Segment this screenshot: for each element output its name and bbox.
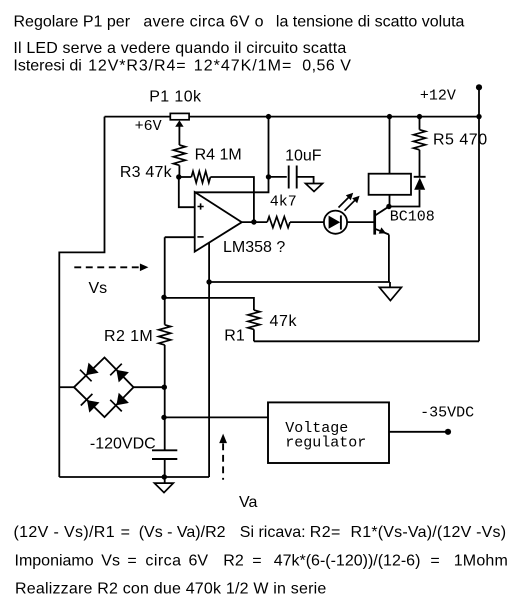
resistor R2 1M — [159, 325, 171, 345]
wire 4k7 to LED — [290, 221, 324, 223]
wire ground bottom rail — [59, 476, 209, 478]
node V+ junction — [266, 174, 271, 179]
wire LED to base — [347, 221, 375, 223]
svg-text:avere circa 6V o: avere circa 6V o — [143, 14, 263, 31]
ground cap — [306, 184, 323, 192]
capacitor C1 10uF — [289, 166, 297, 189]
node bridge junction — [162, 385, 167, 390]
svg-text:Realizzare R2 con due 470k 1/2: Realizzare R2 con due 470k 1/2 W in seri… — [15, 581, 326, 598]
LED arrow 2 — [345, 200, 356, 211]
wire diode to collector — [389, 190, 420, 207]
potentiometer P1 wiper arrow — [175, 120, 183, 127]
svg-text:la tensione di scatto voluta: la tensione di scatto voluta — [276, 14, 465, 31]
wire R3 to feedback corner — [210, 177, 254, 222]
wire left frame — [59, 117, 104, 477]
svg-text:Si ricava:: Si ricava: — [240, 524, 306, 541]
transistor Q1 collector — [375, 207, 389, 216]
svg-text:Imponiamo: Imponiamo — [15, 552, 94, 569]
svg-text:(Vs - Va)/R2: (Vs - Va)/R2 — [139, 524, 226, 541]
node output junction — [251, 219, 256, 224]
LED D1 triangle — [329, 216, 341, 229]
node +12V terminal — [476, 84, 482, 90]
node V- ground junction — [206, 279, 211, 284]
wire Vs line to regulator — [164, 416, 268, 418]
svg-text:R2: R2 — [223, 552, 244, 569]
wire rail to R5 — [419, 117, 421, 130]
wire emitter down — [388, 235, 390, 283]
wire R5 to diode — [419, 150, 421, 177]
svg-text:Il LED serve a vedere quando i: Il LED serve a vedere quando il circuito… — [13, 40, 346, 57]
svg-text:0,56 V: 0,56 V — [302, 58, 351, 75]
svg-text:Va: Va — [239, 494, 257, 511]
svg-text:R2 1M: R2 1M — [104, 328, 153, 345]
diode D2 cathode bar — [414, 176, 426, 178]
svg-text:Vs: Vs — [101, 552, 120, 569]
svg-text:circa: circa — [145, 552, 181, 569]
svg-text:R1*(Vs-Va)/(12V -Vs): R1*(Vs-Va)/(12V -Vs) — [351, 524, 507, 541]
svg-text:LM358 ?: LM358 ? — [223, 239, 285, 256]
svg-text:=: = — [127, 552, 136, 569]
svg-text:+6V: +6V — [135, 118, 162, 135]
resistor R4 1M — [173, 145, 185, 165]
wire op-amp V+ pin — [195, 117, 269, 193]
LED D1 body — [324, 211, 347, 234]
bridge diode bottom-left — [87, 400, 100, 413]
svg-text:Isteresi di: Isteresi di — [13, 58, 81, 75]
wire regulator output — [389, 431, 448, 433]
svg-text:Regolare P1 per: Regolare P1 per — [14, 14, 131, 31]
svg-text:R5 470: R5 470 — [433, 132, 488, 149]
resistor R3 47k — [191, 171, 210, 183]
LED D1 cathode bar — [340, 215, 342, 229]
node Vs junction — [161, 295, 166, 300]
ground main — [154, 483, 173, 493]
wire R1 bottom to +12V — [254, 340, 479, 342]
wire bridge to Vs line — [134, 386, 165, 388]
wire R1 to bottom — [253, 329, 255, 341]
wire Vs vertical — [164, 237, 166, 325]
LED arrow 1 — [339, 197, 350, 208]
svg-text:-35VDC: -35VDC — [420, 404, 474, 421]
svg-text:+12V: +12V — [420, 87, 456, 104]
wire node A to +input — [179, 177, 195, 207]
ground emitter — [379, 287, 401, 300]
node vreg junction — [161, 415, 166, 420]
svg-text:R2=: R2= — [310, 524, 341, 541]
node collector junction — [386, 204, 391, 209]
svg-text:=: = — [430, 552, 439, 569]
svg-text:10uF: 10uF — [285, 148, 322, 165]
wire op-amp output — [242, 221, 267, 223]
svg-text:4k7: 4k7 — [270, 193, 297, 210]
node rail-right junction — [476, 114, 481, 119]
wire -input — [165, 236, 195, 238]
diode D2 triangle — [414, 178, 425, 190]
svg-text:12V*R3/R4=: 12V*R3/R4= — [88, 58, 186, 75]
resistor 4k7 — [267, 217, 290, 228]
capacitor C2 -120VDC — [152, 450, 177, 459]
bridge diode top-left — [86, 363, 99, 376]
wire R4 to node A — [178, 165, 180, 177]
wire Vs to R1 — [164, 298, 254, 310]
arrow Vs dashed — [74, 266, 140, 268]
resistor R5 470 — [414, 130, 426, 150]
transistor Q1 emitter arrow — [379, 227, 387, 233]
op-amp minus sign — [197, 236, 203, 238]
wire top +12V rail — [105, 116, 480, 118]
resistor R1 47k — [248, 310, 260, 329]
svg-text:47k: 47k — [270, 313, 298, 330]
relay K1 coil — [369, 174, 411, 195]
wire right frame — [478, 117, 480, 342]
svg-text:BC108: BC108 — [390, 208, 435, 225]
svg-text:Vs: Vs — [89, 280, 108, 297]
bridge diamond — [74, 358, 134, 418]
node A junction — [176, 174, 181, 179]
svg-text:12*47K/1M=: 12*47K/1M= — [194, 58, 293, 75]
wire op-amp V- pin — [208, 243, 210, 477]
wire rail to relay — [389, 117, 391, 174]
node rail junction C — [266, 114, 271, 119]
op-amp plus sign — [198, 203, 204, 209]
wire relay to collector — [389, 195, 391, 207]
node rail junction relay — [387, 114, 392, 119]
svg-text:1Mohm: 1Mohm — [454, 552, 508, 569]
svg-text:(12V - Vs)/R1: (12V - Vs)/R1 — [14, 524, 115, 541]
svg-text:=: = — [121, 524, 130, 541]
svg-text:R3 47k: R3 47k — [120, 164, 173, 181]
svg-text:6V: 6V — [189, 552, 209, 569]
svg-text:-120VDC: -120VDC — [90, 435, 156, 452]
transistor Q1 emitter — [375, 229, 389, 235]
svg-text:R1: R1 — [224, 327, 245, 344]
wire P1 wiper to R4 — [178, 126, 180, 145]
transistor Q1 base bar — [373, 210, 376, 235]
wire R2 down — [164, 345, 166, 450]
bridge diode bottom-right — [116, 393, 128, 406]
wire emitter ground run — [209, 281, 390, 283]
voltage regulator box — [268, 402, 389, 463]
wire ground stub — [389, 282, 391, 287]
svg-text:47k*(6-(-120))/(12-6): 47k*(6-(-120))/(12-6) — [274, 552, 421, 569]
wire cap to bottom rail — [164, 459, 166, 483]
node rail junction R5 — [417, 114, 422, 119]
potentiometer P1 body — [170, 113, 189, 119]
wire V+ to capacitor — [269, 176, 287, 178]
bridge diode top-right — [116, 370, 128, 383]
node bottom rail junction — [162, 474, 167, 479]
wire capacitor to ground — [297, 177, 314, 184]
svg-text:P1 10k: P1 10k — [149, 88, 202, 105]
wire +12V terminal drop — [478, 87, 480, 116]
svg-text:R4 1M: R4 1M — [195, 147, 242, 164]
arrow Va dashed — [219, 434, 227, 444]
node -35VDC terminal — [445, 429, 451, 435]
wire node A to R3 — [179, 176, 192, 178]
svg-text:=: = — [252, 552, 261, 569]
wire frame to bridge — [59, 386, 74, 388]
op-amp U1 LM358 — [195, 192, 242, 252]
svg-text:regulator: regulator — [285, 435, 366, 452]
